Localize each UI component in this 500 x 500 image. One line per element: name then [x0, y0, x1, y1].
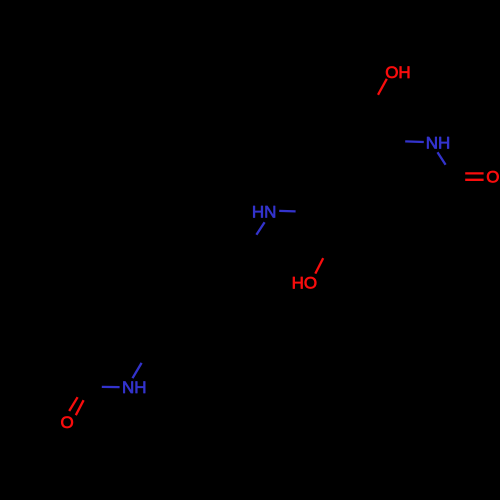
bond N1-C(=O) (blue half, diagonal)	[438, 152, 446, 164]
bond N2-CH2 (blue half, horizontal right)	[279, 210, 295, 213]
bond C-O1 (red half, O to ring carbon)	[378, 79, 387, 95]
svg-text:OH: OH	[385, 63, 411, 82]
svg-text:HN: HN	[252, 203, 277, 222]
svg-text:HO: HO	[292, 273, 318, 292]
bond C-O3 (red half, diagonal)	[315, 258, 323, 274]
bond C-N1 (blue half, horizontal)	[405, 140, 424, 143]
svg-text:NH: NH	[122, 378, 147, 397]
bond N3-C(=O) (blue half, horizontal left)	[102, 386, 120, 389]
svg-text:NH: NH	[426, 134, 451, 153]
svg-text:O: O	[61, 413, 74, 432]
double bond C=O2 (red halves)	[465, 172, 483, 174]
double bond C=O4 (red halves)	[69, 397, 77, 411]
bond C-N3 (blue half, diagonal from above)	[133, 363, 142, 378]
bond N2-C (blue half, diagonal down-left)	[256, 222, 264, 235]
svg-text:O: O	[486, 168, 499, 187]
